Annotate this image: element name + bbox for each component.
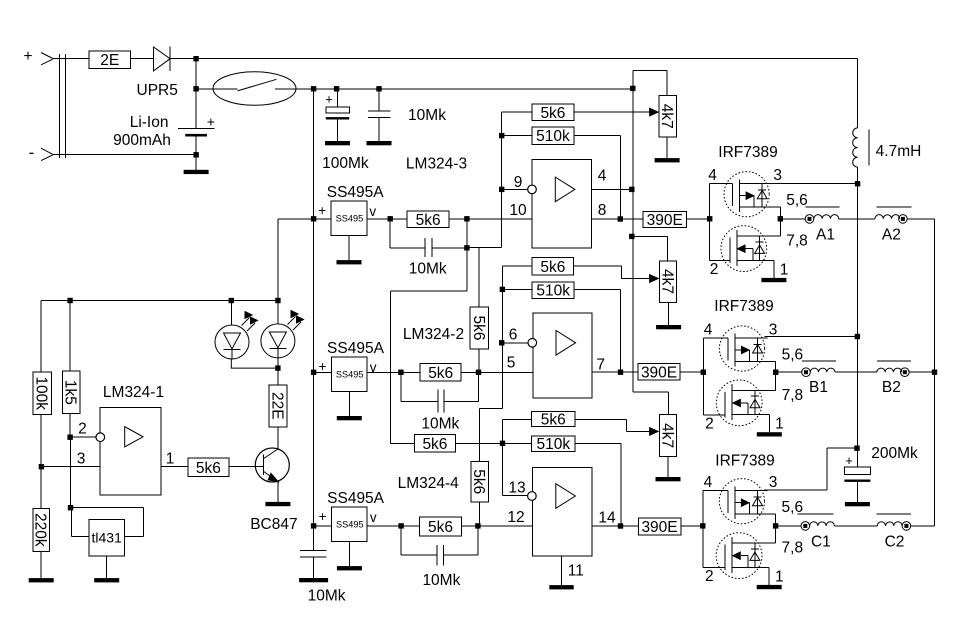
transistor Q4 IRF7389 P-FET drain tap pin3 bbox=[735, 490, 767, 492]
coil A2 bbox=[875, 215, 900, 219]
fuse 2E bbox=[89, 51, 131, 68]
node pin5 junction bbox=[476, 370, 481, 375]
wire sensor3 plus bbox=[314, 525, 332, 527]
wire 5k6 to base bbox=[229, 466, 264, 468]
node output ch1 junction bbox=[618, 216, 623, 221]
svg-text:A2: A2 bbox=[882, 226, 901, 243]
coil B1 bbox=[810, 368, 835, 372]
wire C2 to star bus bbox=[911, 525, 935, 527]
svg-text:Li-Ion: Li-Ion bbox=[130, 114, 169, 131]
transistor Q3 IRF7389 N-FET drain tap bbox=[732, 390, 776, 392]
transistor Q2 IRF7389 P-FET drain tap pin3 bbox=[740, 183, 772, 185]
resistor 5k6 feedback ch1 bbox=[502, 111, 532, 113]
transistor Q4 IRF7389 P-FET gate plate bbox=[727, 491, 729, 514]
svg-text:LM324-3: LM324-3 bbox=[406, 156, 467, 173]
node rail-10Mk junction bbox=[376, 86, 381, 91]
svg-text:-: - bbox=[29, 143, 35, 162]
coil B1 core bar bbox=[802, 360, 836, 362]
transistor Q2 IRF7389 P-FET gate plate bbox=[732, 184, 734, 207]
wire pin11 ground bbox=[561, 556, 563, 585]
resistor 5k6 link bbox=[415, 434, 456, 452]
wire sensor1 plus bbox=[314, 218, 332, 220]
svg-text:5k6: 5k6 bbox=[428, 365, 453, 382]
switch S1 ellipse bbox=[213, 72, 296, 106]
svg-text:6: 6 bbox=[509, 327, 518, 344]
wire feedback bus ch1 bbox=[501, 112, 503, 248]
wire Q2 IRF7389 gate bus bbox=[709, 184, 711, 261]
pin 9 bubble bbox=[528, 185, 537, 194]
wire fuse to diode bbox=[131, 58, 154, 60]
transistor Q3 IRF7389 P-FET gate plate bbox=[727, 338, 729, 361]
node left rail 1k5 bbox=[67, 298, 72, 303]
wire pin7 out bbox=[592, 371, 638, 373]
svg-text:+: + bbox=[319, 359, 327, 374]
wire Q2 IRF7389 phase node bbox=[779, 207, 781, 236]
resistor 22E bbox=[277, 368, 279, 385]
transistor Q4 IRF7389 N-FET circle bbox=[716, 533, 762, 579]
node tl431 junction bbox=[68, 505, 73, 510]
wire 1k5 node to tl431 bbox=[70, 437, 72, 508]
transistor Q4 IRF7389 P-FET channel bbox=[734, 486, 736, 519]
transistor Q3 IRF7389 P-FET circle bbox=[719, 326, 764, 371]
resistor 510k ch1 bbox=[502, 135, 532, 137]
resistor 390E ch2 bbox=[638, 364, 680, 381]
node Q2 IRF7389 phase junction bbox=[778, 216, 783, 221]
coil C2 end circle bbox=[902, 522, 911, 531]
svg-text:5k6: 5k6 bbox=[470, 316, 487, 341]
svg-text:B1: B1 bbox=[809, 379, 828, 396]
svg-text:1: 1 bbox=[775, 568, 784, 585]
wire C1 to C2 bbox=[834, 525, 877, 527]
svg-text:100Mk: 100Mk bbox=[322, 155, 369, 172]
node Q4 IRF7389 phase junction bbox=[773, 523, 778, 528]
node pin6 junction bbox=[499, 340, 504, 345]
ground 4k7 ch2 bbox=[668, 302, 670, 325]
node left rail LED1 bbox=[229, 298, 234, 303]
ground 4k7 ch1 bbox=[666, 137, 668, 158]
node star-B junction bbox=[932, 370, 937, 375]
wire interstage link ch1-ch3 bbox=[466, 248, 468, 291]
svg-text:5k6: 5k6 bbox=[540, 105, 565, 122]
transistor Q2 IRF7389 P-FET arrow bbox=[740, 195, 755, 197]
wire top supply rail bbox=[196, 58, 858, 60]
wire pin3 bbox=[41, 466, 100, 468]
wire V+ bus vertical bbox=[857, 184, 859, 449]
svg-text:+: + bbox=[23, 48, 32, 65]
resistor 4k7 ch2 bbox=[666, 236, 668, 260]
node Q3 IRF7389 phase junction bbox=[773, 370, 778, 375]
node Vplus-C junction bbox=[854, 446, 859, 451]
wire pin8 out bbox=[591, 218, 643, 220]
coil B2 bbox=[877, 368, 902, 372]
resistor 5k6 vertical ch2 bbox=[470, 307, 488, 349]
node output ch2 junction bbox=[618, 370, 623, 375]
wire left rail bbox=[41, 300, 278, 302]
svg-text:2E: 2E bbox=[100, 52, 119, 69]
wire 5k6 ch2 to pin5 bbox=[461, 371, 533, 373]
svg-text:10: 10 bbox=[509, 202, 527, 219]
svg-text:22E: 22E bbox=[268, 392, 285, 420]
LED D2 light arrows bbox=[288, 317, 296, 325]
resistor 220k bbox=[40, 467, 42, 509]
node pin2 junction bbox=[67, 435, 72, 440]
svg-text:LM324-2: LM324-2 bbox=[403, 326, 464, 343]
svg-text:220k: 220k bbox=[32, 513, 49, 547]
node V1 junction bbox=[193, 56, 198, 61]
wire pin13 node bbox=[502, 420, 504, 496]
wire 5k6 vert ch2 bottom bbox=[478, 349, 480, 372]
wire opamp supply bus bbox=[632, 71, 634, 393]
diode Q4 IRF7389 N-FET body bbox=[754, 543, 756, 567]
svg-text:390E: 390E bbox=[647, 212, 683, 229]
wire battery node to switch bbox=[196, 88, 237, 90]
switch S1 blade bbox=[238, 79, 277, 91]
svg-text:900mAh: 900mAh bbox=[113, 132, 171, 149]
svg-text:5k6: 5k6 bbox=[428, 519, 453, 536]
node pin10 junction bbox=[464, 216, 469, 221]
svg-text:4.7mH: 4.7mH bbox=[876, 143, 922, 160]
svg-text:13: 13 bbox=[508, 480, 525, 497]
wire 5k6 vert ch3 bottom bbox=[479, 502, 481, 526]
op-amp U1B LM324-2 box bbox=[533, 313, 592, 398]
node pin12 junction bbox=[475, 523, 480, 528]
resistor 5k6 series ch1 bbox=[407, 211, 449, 227]
LED D1 bbox=[230, 301, 232, 326]
svg-text:510k: 510k bbox=[536, 283, 570, 300]
svg-text:4: 4 bbox=[708, 167, 717, 184]
node 510k ch1 left junction bbox=[499, 133, 504, 138]
transistor Q2 IRF7389 N-FET source tap bbox=[737, 259, 774, 261]
svg-text:+: + bbox=[318, 203, 326, 218]
wire 510k ch1 to output bbox=[574, 135, 621, 137]
arrow into 4k7 ch2 bbox=[650, 275, 659, 283]
wire Q4 IRF7389 P-FET gate bbox=[703, 490, 728, 492]
svg-text:4: 4 bbox=[704, 474, 713, 491]
transistor Q4 IRF7389 N-FET arrow bbox=[733, 552, 741, 559]
svg-text:390E: 390E bbox=[641, 519, 677, 536]
ground tl431 bbox=[106, 556, 108, 578]
svg-text:2: 2 bbox=[710, 261, 719, 278]
wire pin4 supply bbox=[591, 188, 632, 190]
node sensorbus row3 bbox=[311, 523, 316, 528]
wire 5k6 fb ch3 to 4k7 arrow bbox=[575, 419, 626, 421]
svg-text:SS495A: SS495A bbox=[327, 184, 385, 201]
wire tl431 ref bbox=[71, 508, 73, 537]
svg-text:LM324-1: LM324-1 bbox=[103, 384, 164, 401]
wire tl431 cathode bbox=[71, 507, 144, 509]
svg-text:5k6: 5k6 bbox=[422, 436, 447, 453]
svg-text:B2: B2 bbox=[882, 379, 901, 396]
wire diode to node V1 bbox=[170, 58, 196, 60]
ground 10Mk filter bbox=[378, 138, 380, 141]
svg-text:5k6: 5k6 bbox=[416, 212, 441, 229]
wire pin14 out bbox=[592, 525, 638, 527]
svg-text:IRF7389: IRF7389 bbox=[714, 298, 773, 315]
svg-text:IRF7389: IRF7389 bbox=[715, 452, 774, 469]
node output ch3 junction bbox=[618, 523, 623, 528]
ground U4 SS495A bbox=[348, 542, 350, 567]
wire phase A out bbox=[780, 218, 805, 220]
hall sensor U4 SS495A box bbox=[332, 507, 368, 541]
transistor Q3 IRF7389 N-FET channel bbox=[731, 384, 733, 420]
svg-text:10Mk: 10Mk bbox=[408, 107, 446, 124]
svg-text:7: 7 bbox=[596, 357, 605, 374]
node rail-opampbus junction bbox=[630, 86, 635, 91]
transistor Q2 IRF7389 P-FET source tap bbox=[740, 206, 781, 208]
wire P-FET B pin3 to V+ bus bbox=[764, 336, 857, 338]
resistor 4k7 ch3 bbox=[668, 392, 670, 415]
op-amp U1D LM324-4 box bbox=[533, 467, 593, 555]
capacitor 10Mk ch2 bbox=[400, 372, 402, 401]
svg-text:9: 9 bbox=[514, 174, 523, 191]
wire + terminal to fuse bbox=[53, 58, 89, 60]
ground Q4 IRF7389 source pin1 bbox=[768, 567, 770, 585]
coil C2 bbox=[877, 522, 902, 526]
ground 220k bbox=[40, 551, 42, 578]
wire sensor3 out bbox=[367, 525, 419, 527]
wire sensor2 out bbox=[367, 371, 420, 373]
wire left rail to sensor plus node bbox=[277, 219, 279, 301]
wire Q4 IRF7389 N-FET gate bbox=[703, 567, 725, 569]
ground U2 SS495A bbox=[348, 236, 350, 261]
diode UPR5 bbox=[154, 47, 171, 71]
resistor 5k6 feedback ch3 bbox=[503, 419, 532, 421]
node battery bottom junction bbox=[193, 152, 198, 157]
wire Q4 IRF7389 gate bus bbox=[702, 491, 704, 568]
wire 390E ch1 to gates bbox=[686, 218, 709, 220]
wire Q3 IRF7389 P-FET gate bbox=[703, 337, 728, 339]
capacitor 200Mk bbox=[856, 448, 858, 467]
svg-text:5k6: 5k6 bbox=[540, 259, 565, 276]
connector chevron + terminal bbox=[41, 53, 53, 65]
svg-text:BC847: BC847 bbox=[250, 516, 297, 533]
svg-text:14: 14 bbox=[598, 510, 616, 527]
svg-text:tl431: tl431 bbox=[92, 530, 123, 546]
resistor 510k ch2 bbox=[502, 288, 532, 290]
node Vplus-B junction bbox=[855, 334, 860, 339]
resistor 390E ch3 bbox=[638, 518, 681, 535]
svg-text:2: 2 bbox=[78, 421, 87, 438]
ground 4k7 ch3 bbox=[667, 457, 669, 478]
wire pin2 bbox=[70, 436, 96, 438]
svg-text:v: v bbox=[369, 204, 376, 219]
pin 6 bubble bbox=[528, 339, 537, 348]
coil C2 core bar bbox=[876, 513, 910, 515]
svg-text:SS495: SS495 bbox=[336, 214, 364, 224]
node rail-sensorbus junction bbox=[311, 86, 316, 91]
resistor 5k6 vertical ch3 bbox=[471, 462, 489, 502]
wire Q3 IRF7389 N-FET gate bbox=[703, 414, 725, 416]
wire 22E to collector bbox=[277, 427, 279, 449]
svg-text:4: 4 bbox=[704, 321, 713, 338]
transistor Q3 IRF7389 N-FET gate plate bbox=[724, 392, 726, 418]
svg-text:510k: 510k bbox=[536, 436, 570, 453]
wire sensor1 out bbox=[367, 218, 407, 220]
transistor Q2 IRF7389 N-FET drain tap bbox=[737, 235, 781, 237]
svg-text:5k6: 5k6 bbox=[470, 469, 487, 494]
coil C1 core bar bbox=[797, 513, 833, 515]
svg-text:LM324-4: LM324-4 bbox=[398, 475, 460, 492]
svg-text:7,8: 7,8 bbox=[786, 233, 808, 250]
node sensor1 out junction bbox=[388, 216, 393, 221]
svg-text:10Mk: 10Mk bbox=[308, 587, 346, 604]
svg-text:10Mk: 10Mk bbox=[422, 572, 460, 589]
transistor Q2 IRF7389 N-FET circle bbox=[721, 226, 767, 272]
transistor Q2 IRF7389 N-FET channel bbox=[736, 230, 738, 266]
regulator tl431 bbox=[89, 520, 125, 556]
LED D2 bbox=[277, 301, 279, 325]
arrow into 4k7 ch3 bbox=[650, 428, 659, 436]
svg-text:+: + bbox=[325, 91, 333, 106]
coil A2 core bar bbox=[876, 206, 911, 208]
wire pin6 node bbox=[502, 342, 528, 344]
svg-text:4k7: 4k7 bbox=[658, 269, 675, 294]
svg-text:1: 1 bbox=[775, 416, 784, 433]
svg-text:5: 5 bbox=[507, 355, 516, 372]
transistor emitter arrow bbox=[268, 473, 278, 482]
wire sensor plus bus bbox=[313, 89, 315, 526]
wire pin9 node bbox=[502, 188, 528, 190]
transistor Q4 IRF7389 N-FET channel bbox=[731, 537, 733, 573]
capacitor 100Mk bbox=[337, 89, 339, 107]
node sensorbus row1 bbox=[311, 216, 316, 221]
svg-text:A1: A1 bbox=[816, 226, 835, 243]
ground Q2 IRF7389 source pin1 bbox=[773, 260, 775, 278]
svg-text:5,6: 5,6 bbox=[782, 347, 804, 364]
transistor Q3 IRF7389 P-FET arrow bbox=[735, 349, 750, 351]
node pin9 junction bbox=[499, 187, 504, 192]
resistor 390E ch1 bbox=[643, 211, 686, 227]
transistor Q2 IRF7389 P-FET circle bbox=[724, 172, 769, 217]
ground BC847 emitter bbox=[277, 482, 279, 502]
node LED cathode junction bbox=[275, 365, 280, 370]
svg-text:2: 2 bbox=[705, 415, 714, 432]
node sensor3 out junction bbox=[398, 523, 403, 528]
svg-text:C1: C1 bbox=[811, 533, 831, 550]
transistor Q2 IRF7389 P-FET channel bbox=[739, 179, 741, 212]
transistor Q3 IRF7389 N-FET source tap bbox=[732, 414, 769, 416]
transistor Q4 IRF7389 P-FET arrow bbox=[735, 502, 750, 504]
coil B2 end circle bbox=[901, 368, 910, 377]
svg-text:3: 3 bbox=[769, 321, 778, 338]
svg-text:+: + bbox=[845, 453, 853, 468]
wire Q3 IRF7389 phase node bbox=[775, 362, 777, 391]
transistor Q3 IRF7389 P-FET channel bbox=[734, 334, 736, 367]
svg-text:UPR5: UPR5 bbox=[137, 82, 178, 99]
wire phase B out bbox=[778, 371, 802, 373]
node left rail LED2 bbox=[275, 298, 280, 303]
ground Q3 IRF7389 source pin1 bbox=[768, 415, 770, 433]
node pin3 junction bbox=[39, 464, 44, 469]
wire B1 to B2 bbox=[835, 371, 877, 373]
svg-text:SS495: SS495 bbox=[336, 520, 364, 530]
node 510k ch2 left junction bbox=[500, 287, 505, 292]
wire Q2 IRF7389 P-FET gate bbox=[710, 183, 733, 185]
svg-text:5,6: 5,6 bbox=[786, 192, 808, 209]
svg-text:SS495A: SS495A bbox=[327, 340, 385, 357]
pin 13 bubble bbox=[528, 492, 537, 501]
svg-text:4k7: 4k7 bbox=[659, 423, 676, 448]
coil C1 bbox=[810, 522, 835, 526]
diode Q3 IRF7389 N-FET body bbox=[754, 391, 756, 415]
resistor 100k bbox=[40, 301, 42, 373]
svg-text:7,8: 7,8 bbox=[782, 387, 804, 404]
coil A1 bbox=[814, 215, 839, 219]
coil A2 end circle bbox=[899, 215, 908, 224]
svg-text:2: 2 bbox=[705, 568, 714, 585]
svg-text:3: 3 bbox=[769, 474, 778, 491]
LED D1 light arrows bbox=[242, 318, 250, 326]
ground battery bbox=[195, 155, 197, 170]
ground U3 SS495A bbox=[348, 392, 350, 417]
wire Q2 IRF7389 N-FET gate bbox=[710, 260, 730, 262]
transistor Q4 IRF7389 N-FET gate plate bbox=[724, 545, 726, 571]
connector chevron - terminal bbox=[41, 148, 53, 160]
svg-text:200Mk: 200Mk bbox=[871, 445, 918, 462]
wire P-FET A pin3 to V+ bus bbox=[769, 183, 858, 185]
resistor 5k6 feedback ch2 bbox=[502, 265, 532, 267]
diode Q2 IRF7389 P-FET body bbox=[761, 184, 763, 208]
ground 10Mk sensor bus bbox=[313, 575, 315, 578]
diode Q3 IRF7389 P-FET body bbox=[757, 338, 759, 362]
transistor Q3 IRF7389 P-FET drain tap pin3 bbox=[735, 337, 767, 339]
wire 5k6 fb ch1 to 4k7 arrow bbox=[574, 111, 656, 113]
wire pin1 to 5k6 bbox=[161, 466, 188, 468]
wire feedback bus ch2 bbox=[501, 266, 503, 408]
wire 1k5 to pin2 bbox=[69, 414, 71, 438]
svg-text:3: 3 bbox=[773, 167, 782, 184]
node sensorbus row2 bbox=[311, 370, 316, 375]
transistor Q4 IRF7389 N-FET source tap bbox=[732, 566, 769, 568]
capacitor 10Mk ch1 bbox=[389, 219, 391, 248]
transistor Q3 IRF7389 P-FET source tap bbox=[735, 361, 776, 363]
svg-text:SS495A: SS495A bbox=[327, 490, 385, 507]
node Q2 IRF7389 gate junction bbox=[707, 216, 712, 221]
svg-text:+: + bbox=[319, 509, 327, 524]
capacitor 10Mk filter bbox=[378, 89, 380, 111]
svg-text:C2: C2 bbox=[885, 533, 905, 550]
wire 5k6 fb ch2 to 4k7 arrow bbox=[574, 265, 622, 267]
arrow into 4k7 ch1 bbox=[650, 108, 659, 116]
node Vplus-A junction bbox=[855, 181, 860, 186]
resistor 5k6 series ch2 bbox=[420, 364, 461, 382]
coil B1 start circle bbox=[802, 368, 811, 377]
transistor Q2 IRF7389 N-FET gate plate bbox=[729, 238, 731, 264]
node rail-100Mk junction bbox=[334, 86, 339, 91]
wire 390E ch2 to gates bbox=[680, 371, 703, 373]
svg-text:100k: 100k bbox=[33, 376, 50, 410]
svg-text:12: 12 bbox=[507, 509, 524, 526]
svg-text:390E: 390E bbox=[641, 364, 677, 381]
wire link to 510k ch3 bbox=[455, 442, 531, 444]
svg-text:3: 3 bbox=[77, 451, 86, 468]
svg-text:5k6: 5k6 bbox=[541, 411, 566, 428]
node pin4 bus junction bbox=[629, 187, 634, 192]
svg-text:10Mk: 10Mk bbox=[409, 261, 447, 278]
coil B2 core bar bbox=[877, 360, 911, 362]
node bus 4k7 ch2 junction bbox=[629, 234, 634, 239]
coil A1 core bar bbox=[806, 206, 840, 208]
capacitor 10Mk sensor bus bbox=[313, 526, 315, 551]
svg-text:4k7: 4k7 bbox=[658, 104, 675, 129]
wire A1 to A2 bbox=[839, 218, 875, 220]
svg-text:10Mk: 10Mk bbox=[421, 415, 459, 432]
svg-text:1: 1 bbox=[780, 261, 789, 278]
coil A1 start circle bbox=[805, 215, 814, 224]
resistor 5k6 base bbox=[188, 458, 229, 477]
transistor Q1 BC847 bbox=[255, 448, 289, 482]
hall sensor U2 SS495A box bbox=[331, 201, 367, 236]
